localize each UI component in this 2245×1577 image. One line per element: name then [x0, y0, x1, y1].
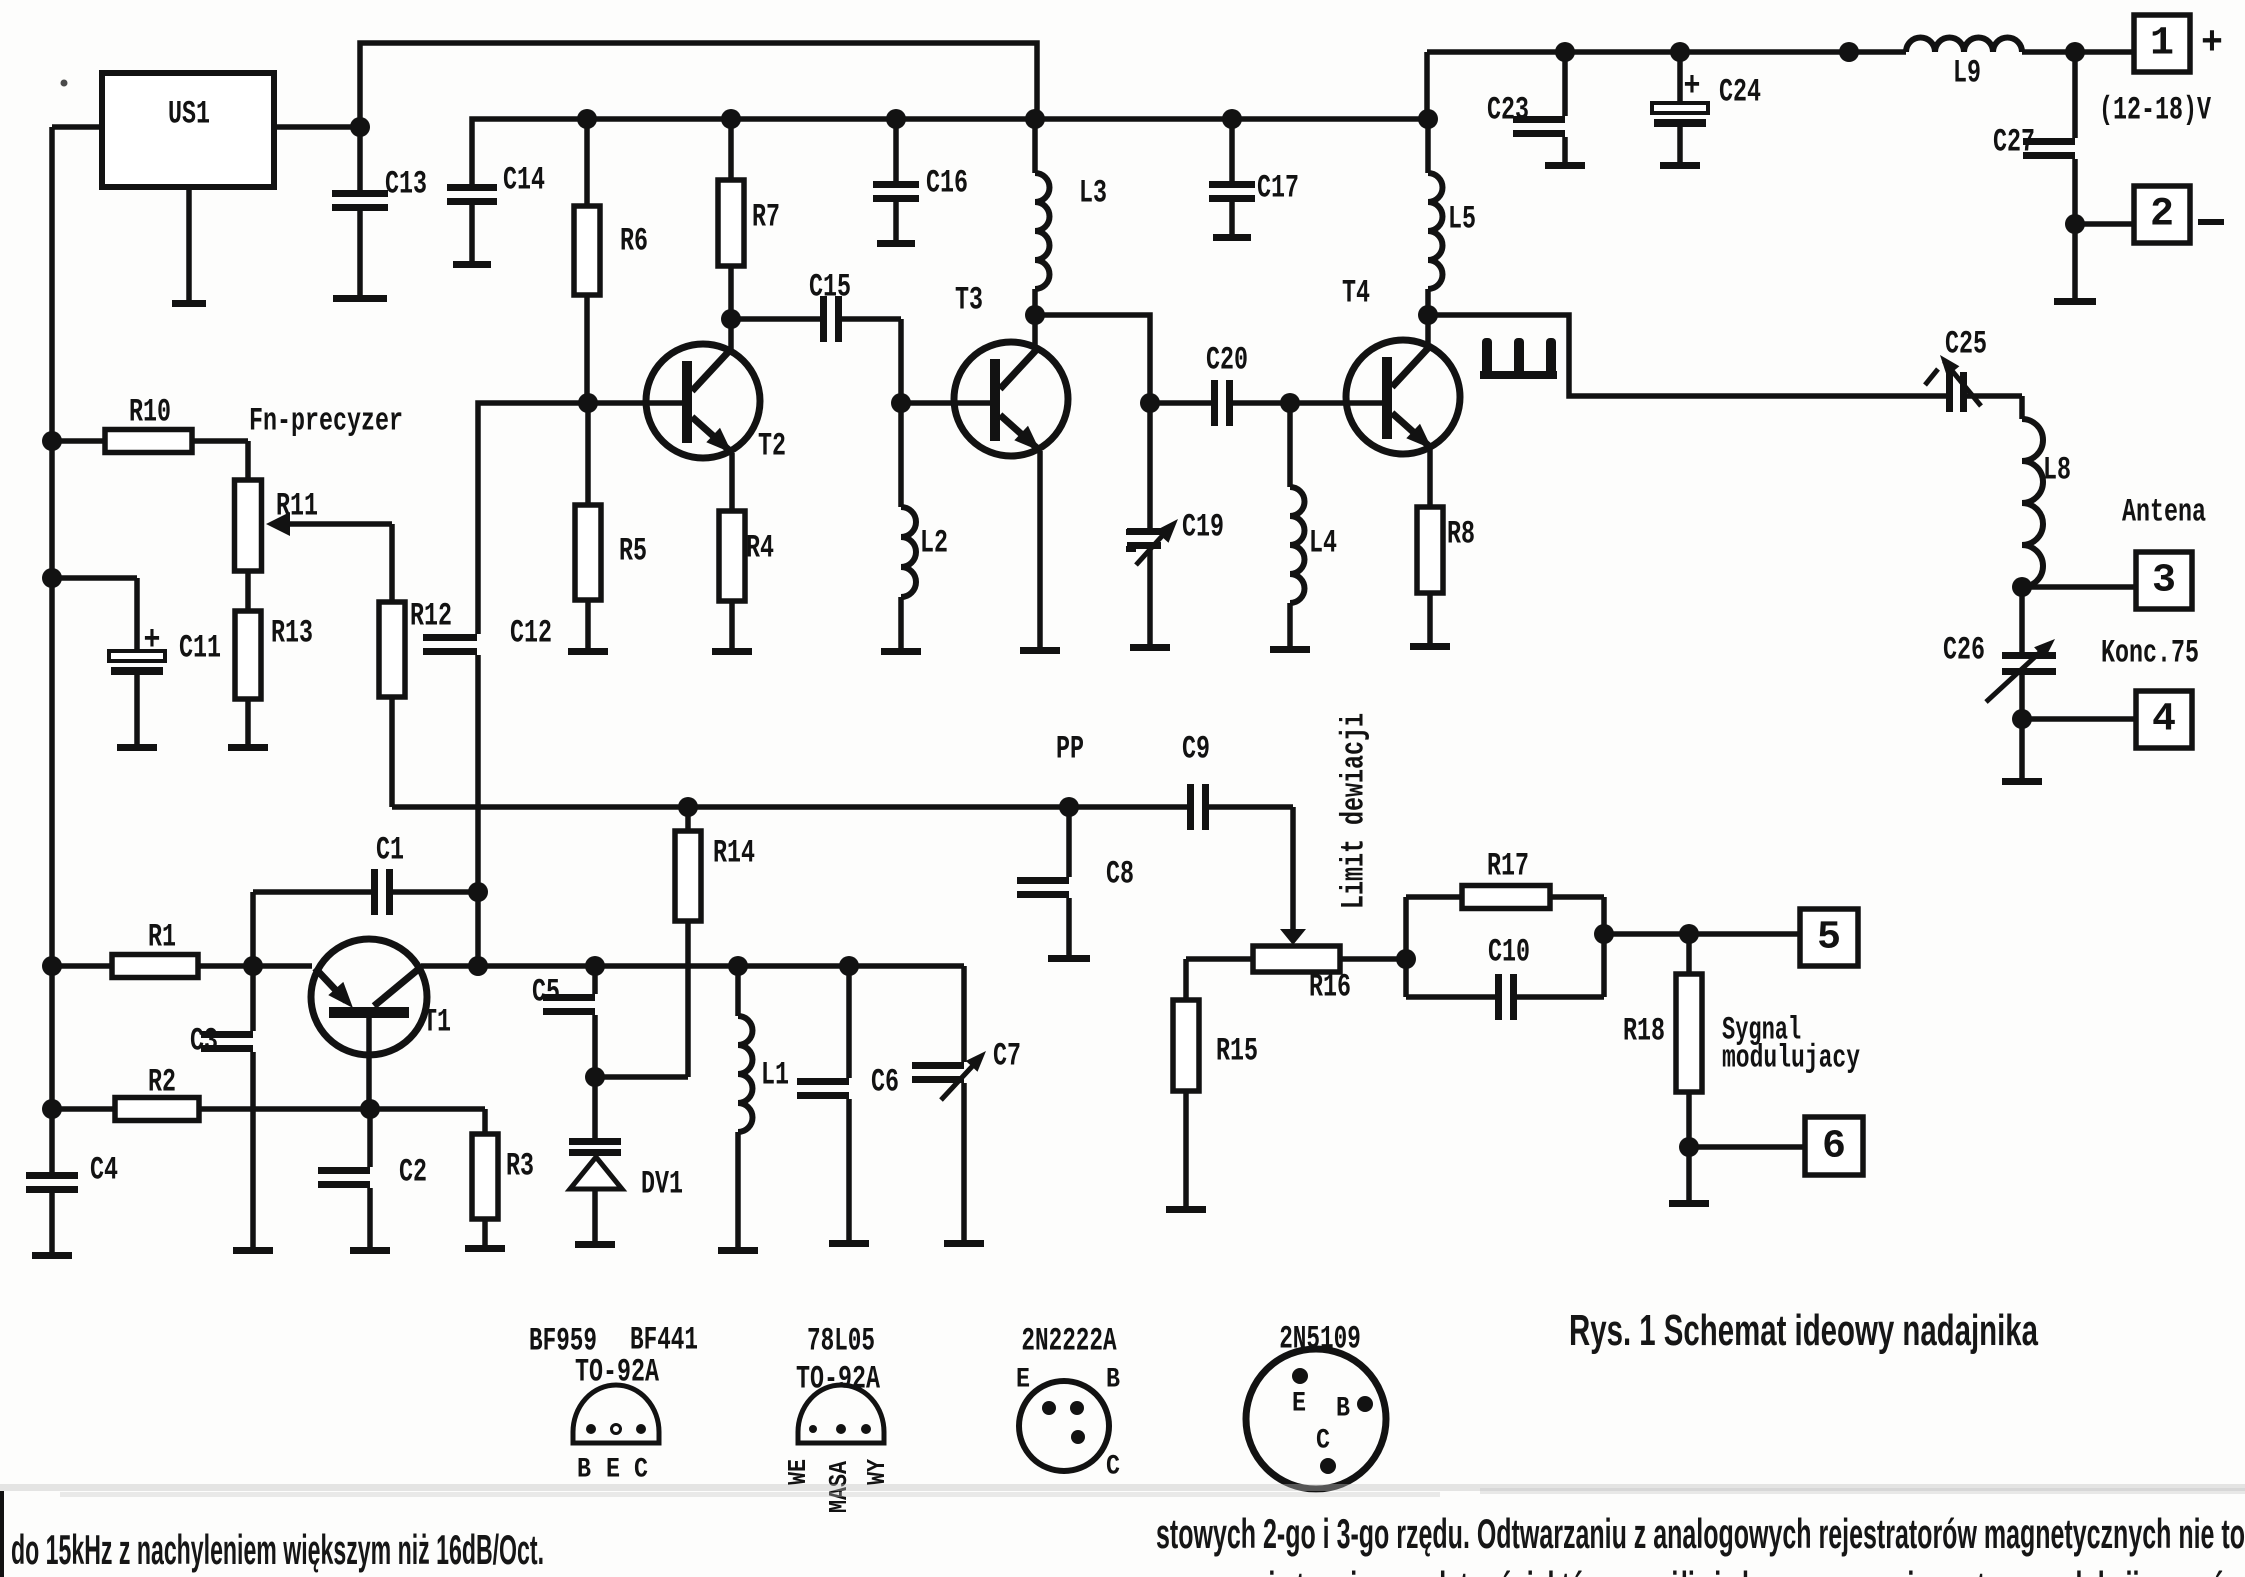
svg-text:2: 2 — [2150, 193, 2174, 238]
resistor R3 — [465, 1109, 534, 1252]
capacitor C16 — [873, 119, 968, 247]
svg-text:2N2222A: 2N2222A — [1021, 1323, 1117, 1360]
svg-text:C7: C7 — [993, 1038, 1021, 1075]
node L1 top — [728, 956, 748, 976]
node R7 top — [721, 109, 741, 129]
resistor R17 — [1406, 848, 1604, 909]
terminal box 5 — [1800, 909, 1858, 966]
svg-text:R13: R13 — [271, 615, 313, 652]
svg-text:(12-18)V: (12-18)V — [2099, 92, 2212, 129]
svg-text:R15: R15 — [1216, 1033, 1258, 1070]
svg-text:US1: US1 — [168, 96, 210, 133]
label TO-92A right — [796, 1361, 881, 1398]
node L9 right / C27 top — [2065, 42, 2085, 62]
wire DV1 node to R14 — [595, 921, 688, 1077]
svg-text:L3: L3 — [1079, 175, 1107, 212]
potentiometer R16 — [1253, 929, 1351, 1006]
resistor R2 — [52, 1064, 485, 1121]
svg-text:R11: R11 — [276, 488, 318, 525]
svg-text:C3: C3 — [190, 1023, 218, 1060]
wire to terminal 2 — [2075, 221, 2134, 227]
svg-text:C2: C2 — [399, 1154, 427, 1191]
inductor L1 — [718, 966, 789, 1254]
node T1 left junction — [42, 956, 62, 976]
resistor R18 — [1623, 934, 1702, 1147]
capacitor C17 — [1209, 119, 1299, 241]
transistor T4 — [1342, 275, 1460, 455]
svg-text:B: B — [577, 1455, 591, 1486]
text bottom-right — [1156, 1510, 2245, 1557]
svg-text:C: C — [634, 1455, 648, 1486]
svg-text:C13: C13 — [385, 166, 427, 203]
heatsink on T4 — [1480, 338, 1557, 379]
svg-text:R8: R8 — [1447, 516, 1475, 553]
node C20 left junction — [1140, 393, 1160, 413]
svg-text:L8: L8 — [2043, 452, 2071, 489]
node L5 bottom / T4 collector — [1418, 305, 1438, 325]
capacitor C3 — [190, 966, 273, 1254]
capacitor C1 — [253, 832, 478, 916]
svg-text:Antena: Antena — [2122, 494, 2206, 531]
capacitor C13 — [332, 166, 427, 303]
wire to terminal 4 — [2022, 716, 2136, 722]
scan speck — [61, 80, 68, 87]
svg-text:R16: R16 — [1309, 969, 1351, 1006]
label BF959 BF441 — [529, 1322, 698, 1360]
ground US1 — [172, 187, 206, 307]
wire C15 to T3 base — [898, 319, 904, 403]
svg-text:C4: C4 — [90, 1152, 118, 1189]
node loop output — [1594, 924, 1614, 944]
wire T3 collector to C20 column — [1035, 315, 1150, 403]
node T2 base (R6/R5) — [578, 393, 598, 413]
svg-text:C26: C26 — [1943, 632, 1985, 669]
node bus junction — [1839, 42, 1859, 62]
wire C9 to R16 wiper — [1290, 807, 1296, 931]
inductor L8 — [2022, 396, 2071, 589]
node US1-C13 junction — [350, 117, 370, 137]
svg-text:Rys. 1 Schemat ideowy nadajnik: Rys. 1 Schemat ideowy nadajnika — [1569, 1306, 2038, 1355]
capacitor C14 — [447, 162, 545, 269]
text bottom-left — [11, 1526, 544, 1573]
svg-text:E: E — [1016, 1365, 1030, 1396]
node C23 top — [1555, 42, 1575, 62]
node T4 base / L4 top — [1280, 393, 1300, 413]
caption Rys. 1 Schemat ideowy nadajnika — [1569, 1306, 2038, 1355]
node C17 top — [1222, 109, 1242, 129]
wire T2 base node to C12 column — [478, 403, 588, 634]
wire C1 left drop — [250, 892, 256, 966]
pin labels 2N5109 — [1292, 1389, 1350, 1457]
node T2 collector / C15 — [721, 309, 741, 329]
node R6 top — [577, 109, 597, 129]
inductor L5 — [1428, 119, 1476, 315]
svg-text:R5: R5 — [619, 533, 647, 570]
trimmer capacitor C26 — [1943, 587, 2056, 719]
node R14 top — [678, 797, 698, 817]
svg-text:+: + — [2201, 22, 2223, 67]
node PP — [1056, 731, 1084, 818]
svg-text:5: 5 — [1817, 916, 1841, 961]
potentiometer R11 — [235, 441, 393, 571]
svg-text:E: E — [1292, 1389, 1306, 1420]
svg-text:R10: R10 — [129, 394, 171, 431]
node left rail C11 — [42, 568, 62, 588]
svg-text:C: C — [1316, 1426, 1330, 1457]
node left rail R2 — [42, 1099, 62, 1119]
svg-text:R7: R7 — [752, 199, 780, 236]
wire R16 right to loop — [1340, 956, 1406, 962]
label 2N2222A — [1021, 1323, 1117, 1360]
capacitor C6 — [797, 966, 899, 1247]
svg-text:C19: C19 — [1182, 509, 1224, 546]
inductor L9 — [1906, 38, 2022, 92]
label minus — [2198, 219, 2224, 225]
svg-text:C6: C6 — [871, 1064, 899, 1101]
svg-text:T1: T1 — [423, 1004, 451, 1041]
node C24 top — [1670, 42, 1690, 62]
capacitor C23 — [1487, 52, 1585, 169]
node L3 top — [1025, 109, 1045, 129]
svg-text:R17: R17 — [1487, 848, 1529, 885]
ground R18 — [1669, 1147, 1709, 1207]
inductor L2 — [881, 403, 948, 655]
node R2/T1 base junction — [360, 1099, 380, 1119]
svg-text:Limit dewiacji: Limit dewiacji — [1336, 713, 1373, 909]
ground antenna network — [2002, 719, 2042, 785]
wire R16 left to R15 — [1186, 959, 1253, 1000]
node L8 bottom — [2012, 577, 2032, 597]
capacitor C24 (electrolytic) — [1652, 52, 1761, 169]
svg-text:PP: PP — [1056, 731, 1084, 768]
wire loop right vertical — [1601, 897, 1607, 997]
package TO-92A left — [573, 1385, 659, 1443]
node left rail R10 — [42, 431, 62, 451]
label Antena — [2122, 494, 2206, 531]
svg-text:stowych 2-go i 3-go rzędu. Odt: stowych 2-go i 3-go rzędu. Odtwarzaniu z… — [1156, 1510, 2245, 1557]
svg-text:78L05: 78L05 — [807, 1323, 875, 1360]
resistor R7 — [718, 119, 780, 319]
svg-text:C5: C5 — [532, 974, 560, 1011]
node R18 bottom — [1679, 1137, 1699, 1157]
svg-text:L1: L1 — [761, 1057, 789, 1094]
resistor R6 — [574, 119, 648, 403]
pin labels B E C — [577, 1455, 648, 1486]
trimmer capacitor C25 — [1925, 326, 2022, 413]
svg-text:R1: R1 — [148, 919, 176, 956]
svg-text:6: 6 — [1822, 1125, 1846, 1170]
node C5 top — [585, 956, 605, 976]
svg-text:WY: WY — [862, 1459, 892, 1485]
scan left edge mark — [0, 1491, 4, 1577]
label 78L05 — [807, 1323, 875, 1360]
svg-text:Konc.75: Konc.75 — [2101, 635, 2199, 672]
resistor R4 (T2 emitter) — [712, 453, 774, 655]
svg-text:C8: C8 — [1106, 856, 1134, 893]
capacitor C2 — [318, 1109, 427, 1254]
wire T3 base — [901, 400, 990, 406]
node L5 top / T4 collector column — [1418, 109, 1438, 129]
wire to terminal 6 — [1689, 1144, 1805, 1150]
svg-text:R4: R4 — [746, 530, 774, 567]
node C3/C1 junction — [243, 956, 263, 976]
ground C27 — [2054, 224, 2096, 305]
terminal box 2 — [2134, 186, 2190, 243]
node T3 base — [891, 393, 911, 413]
capacitor C11 (electrolytic) — [52, 578, 221, 751]
wire US1 output to C13 node — [274, 124, 360, 130]
wire to terminal 1 — [2022, 49, 2134, 55]
svg-text:T2: T2 — [758, 428, 786, 465]
svg-text:L2: L2 — [920, 525, 948, 562]
transistor T1 — [311, 939, 451, 1109]
wire T4 collector to C25 — [1428, 315, 1946, 396]
svg-text:R14: R14 — [713, 835, 755, 872]
svg-text:+: + — [1684, 68, 1701, 106]
terminal box 1 — [2134, 15, 2190, 72]
capacitor C27 — [1993, 52, 2075, 224]
trimmer capacitor C19 — [1126, 403, 1224, 651]
resistor R1 — [52, 919, 312, 978]
terminal box 4 — [2136, 691, 2192, 748]
svg-text:T3: T3 — [955, 282, 983, 319]
varicap diode DV1 — [569, 1077, 683, 1248]
resistor R15 — [1166, 1000, 1258, 1213]
node R17/C10 left junction — [1396, 949, 1416, 969]
package 2N2222A — [1019, 1381, 1109, 1471]
svg-text:1: 1 — [2150, 22, 2174, 67]
svg-text:B: B — [1106, 1365, 1120, 1396]
resistor R10 — [52, 394, 248, 453]
label Sygnal modulujacy — [1722, 1012, 1860, 1077]
inductor L4 — [1270, 403, 1337, 653]
wire US1 input from left rail — [52, 124, 102, 130]
capacitor C20 — [1150, 342, 1290, 427]
svg-text:WE: WE — [783, 1459, 813, 1485]
svg-text:C27: C27 — [1993, 124, 2035, 161]
svg-text:R3: R3 — [506, 1148, 534, 1185]
trimmer capacitor C7 — [912, 966, 1021, 1247]
node L3 bottom / T3 collector — [1025, 305, 1045, 325]
wire top feed (C13 node to L3 column) — [360, 43, 1037, 190]
transistor T3 — [954, 282, 1068, 457]
IC US1 (voltage regulator) — [102, 73, 274, 187]
label supply voltage — [2099, 92, 2212, 129]
svg-text:C14: C14 — [503, 162, 545, 199]
svg-text:C23: C23 — [1487, 92, 1529, 129]
label Konc.75 — [2101, 635, 2199, 672]
node R18 top — [1679, 924, 1699, 944]
package 2N5109 — [1246, 1349, 1386, 1489]
wire T2 base — [588, 400, 682, 406]
capacitor C4 — [26, 1152, 118, 1260]
scan smudge band — [0, 1484, 2245, 1497]
svg-text:DV1: DV1 — [641, 1166, 683, 1203]
label plus — [2201, 22, 2223, 67]
node C5/DV1 junction — [585, 1067, 605, 1087]
capacitor C10 — [1406, 934, 1604, 1021]
terminal box 3 — [2136, 552, 2192, 609]
resistor R13 — [228, 571, 313, 751]
svg-text:4: 4 — [2152, 698, 2176, 743]
capacitor C8 — [1017, 807, 1134, 962]
pin labels 2N2222A — [1016, 1365, 1120, 1483]
wire to terminal 3 — [2022, 584, 2136, 590]
resistor R8 (T4 emitter) — [1410, 449, 1475, 650]
capacitor C5 — [532, 966, 595, 1077]
svg-text:C9: C9 — [1182, 731, 1210, 768]
capacitor C12 — [423, 615, 552, 656]
svg-text:E: E — [606, 1455, 620, 1486]
text bottom-right partial second line — [1210, 1563, 2245, 1577]
svg-text:R2: R2 — [148, 1064, 176, 1101]
svg-text:C15: C15 — [809, 269, 851, 306]
svg-text:C25: C25 — [1945, 326, 1987, 363]
wire left supply rail — [49, 127, 55, 1174]
svg-text:C20: C20 — [1206, 342, 1248, 379]
svg-text:C1: C1 — [376, 832, 404, 869]
pin labels WE MASA WY — [783, 1459, 892, 1513]
svg-text:C10: C10 — [1488, 934, 1530, 971]
svg-text:L5: L5 — [1448, 201, 1476, 238]
svg-text:modulujacy: modulujacy — [1722, 1040, 1860, 1077]
svg-text:C: C — [1106, 1452, 1120, 1483]
svg-text:C12: C12 — [510, 615, 552, 652]
svg-text:nym i stopniu przydatności, kt: nym i stopniu przydatności, które umożli… — [1210, 1563, 2245, 1577]
svg-text:+: + — [144, 622, 161, 660]
node C16 top — [886, 109, 906, 129]
wire C12 to C1 junction — [475, 655, 481, 966]
label Fn-precyzer — [249, 403, 403, 440]
svg-text:Fn-precyzer: Fn-precyzer — [249, 403, 403, 440]
terminal box 6 — [1805, 1117, 1863, 1175]
label 2N5109 — [1279, 1321, 1361, 1358]
label Limit dewiacji — [1336, 713, 1373, 909]
capacitor C9 — [1069, 731, 1293, 831]
node C1 right junction — [468, 882, 488, 902]
capacitor C15 — [731, 269, 901, 343]
wire R12 bottom to PP node — [392, 804, 1069, 810]
resistor R5 — [568, 403, 647, 655]
svg-text:C24: C24 — [1719, 74, 1761, 111]
node C27 bottom — [2065, 214, 2085, 234]
svg-text:R18: R18 — [1623, 1013, 1665, 1050]
svg-text:L4: L4 — [1309, 525, 1337, 562]
wire T4 base — [1290, 400, 1382, 406]
svg-text:B: B — [1336, 1394, 1350, 1425]
node C6 top — [839, 956, 859, 976]
svg-text:C17: C17 — [1257, 170, 1299, 207]
wire to terminal 5 — [1604, 931, 1800, 937]
svg-text:T4: T4 — [1342, 275, 1370, 312]
svg-text:L9: L9 — [1953, 55, 1981, 92]
svg-text:C16: C16 — [926, 165, 968, 202]
label TO-92A left — [575, 1354, 660, 1391]
svg-text:TO-92A: TO-92A — [796, 1361, 881, 1398]
resistor R12 (from R11 wiper) — [379, 524, 452, 807]
resistor R14 — [675, 807, 755, 921]
inductor L3 — [1035, 119, 1107, 315]
svg-text:do 15kHz z nachyleniem większy: do 15kHz z nachyleniem większym niż 16dB… — [11, 1526, 544, 1573]
svg-text:C11: C11 — [179, 630, 221, 667]
svg-text:R12: R12 — [410, 598, 452, 635]
wire T1 collector row — [421, 963, 964, 969]
package TO-92A right — [798, 1385, 884, 1443]
node T1 collector junction — [468, 956, 488, 976]
wire loop left vertical — [1403, 897, 1409, 997]
wire T3 emitter to ground — [1020, 451, 1060, 654]
svg-text:R6: R6 — [620, 223, 648, 260]
node C26 bottom — [2012, 709, 2032, 729]
transistor T2 — [646, 319, 786, 465]
wire top-right supply bus — [1427, 52, 1906, 119]
wire C14 top corner to bus — [472, 119, 1428, 184]
svg-text:3: 3 — [2152, 559, 2176, 604]
